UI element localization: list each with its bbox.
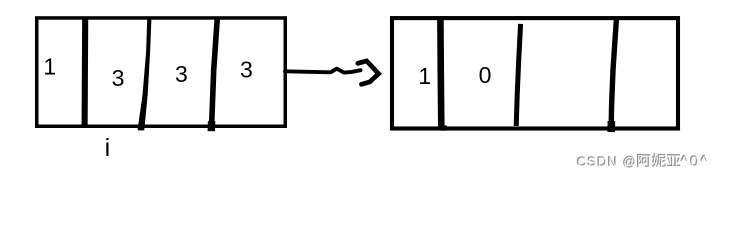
right array box bbox=[392, 18, 678, 128]
svg-text:0: 0 bbox=[479, 62, 492, 88]
left array box bbox=[37, 18, 286, 126]
left box divider 2 bbox=[138, 19, 152, 130]
svg-text:i: i bbox=[105, 134, 111, 162]
svg-text:CSDN @: CSDN @ bbox=[577, 155, 637, 170]
svg-text:3: 3 bbox=[175, 61, 188, 87]
svg-text:1: 1 bbox=[43, 54, 56, 80]
arrow head bbox=[358, 61, 379, 84]
right box divider 3 bbox=[611, 19, 616, 132]
left box divider 3 bbox=[211, 19, 217, 131]
watermark "CSDN @阿妮亚^0^" (engraved gray) bbox=[576, 153, 710, 171]
svg-text:1: 1 bbox=[418, 63, 431, 89]
svg-text:3: 3 bbox=[240, 57, 253, 83]
right box divider 2 bbox=[516, 24, 520, 126]
right box divider 1 bbox=[440, 19, 444, 130]
left box divider 1 bbox=[82, 19, 89, 126]
arrow shaft bbox=[285, 69, 361, 73]
svg-text:3: 3 bbox=[112, 65, 125, 91]
svg-text:^0^: ^0^ bbox=[681, 154, 710, 171]
